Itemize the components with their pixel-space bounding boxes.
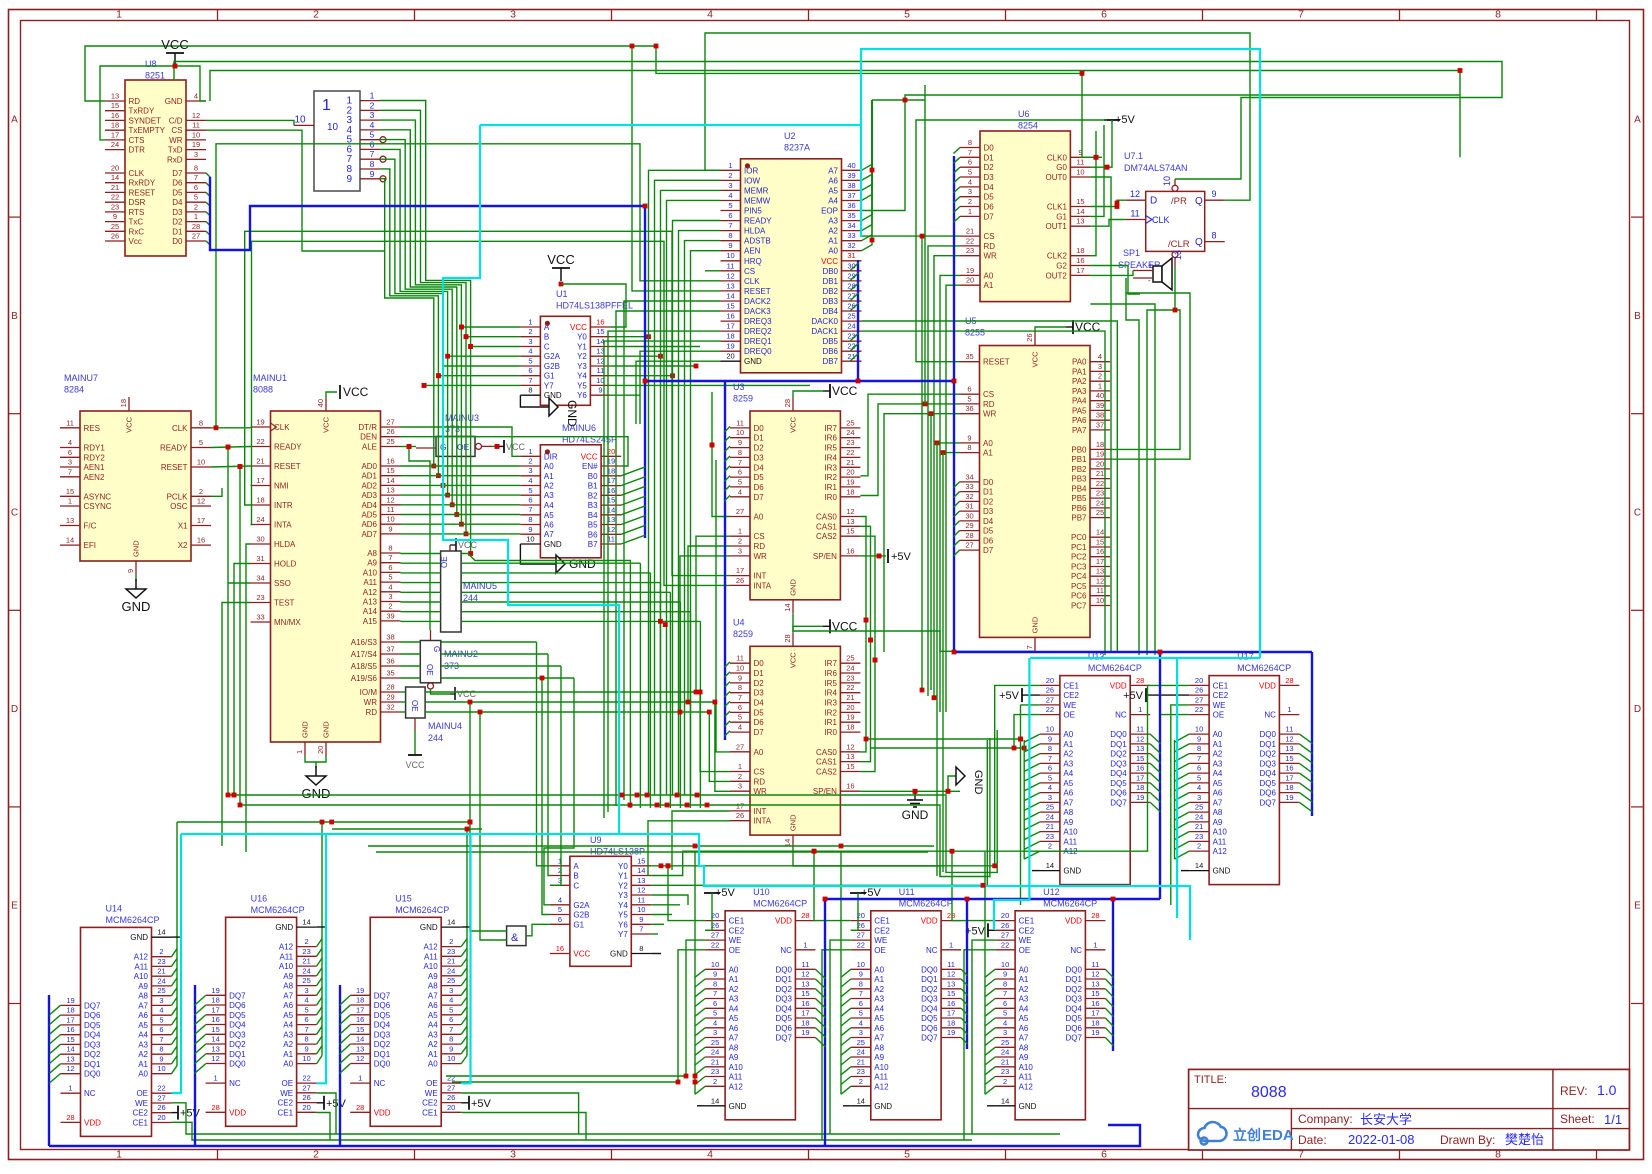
wire: U7.1 Q to top rail: [705, 33, 1250, 200]
svg-text:VDD: VDD: [1259, 681, 1276, 690]
svg-text:21: 21: [711, 1057, 719, 1066]
svg-text:23: 23: [846, 438, 854, 447]
svg-text:22: 22: [447, 1074, 455, 1083]
svg-text:IR0: IR0: [824, 493, 837, 502]
svg-text:PA1: PA1: [1072, 367, 1087, 376]
svg-text:6: 6: [68, 448, 72, 457]
bus: memory DQ verticals: [1159, 652, 1161, 899]
svg-text:2: 2: [449, 937, 453, 946]
svg-text:12: 12: [846, 742, 854, 751]
svg-text:27: 27: [386, 418, 394, 427]
svg-text:6: 6: [194, 183, 198, 192]
svg-text:U7.1: U7.1: [1124, 151, 1143, 161]
svg-text:1: 1: [803, 940, 807, 949]
svg-text:D1: D1: [754, 669, 765, 678]
svg-text:4: 4: [194, 92, 198, 101]
svg-text:4: 4: [1048, 783, 1052, 792]
svg-text:GND: GND: [972, 770, 984, 795]
ground: [914, 792, 916, 800]
svg-text:8: 8: [859, 979, 863, 988]
svg-text:A1: A1: [874, 975, 884, 984]
svg-text:A: A: [573, 862, 579, 871]
svg-text:WR: WR: [754, 552, 768, 561]
svg-text:A3: A3: [874, 995, 884, 1004]
IC MAINU1 8088 CPU: [251, 373, 401, 742]
svg-text:2022-01-08: 2022-01-08: [1348, 1132, 1415, 1147]
svg-text:A10: A10: [423, 962, 438, 971]
svg-text:8: 8: [639, 944, 643, 953]
svg-text:CAS1: CAS1: [816, 522, 837, 531]
svg-text:DQ1: DQ1: [374, 1050, 391, 1059]
svg-text:G2: G2: [1056, 262, 1067, 271]
svg-text:B6: B6: [588, 530, 598, 539]
wire: U3 CAS0..2 to U4 CAS: [860, 517, 866, 752]
svg-text:SP1: SP1: [1123, 248, 1140, 258]
svg-text:PB4: PB4: [1071, 484, 1087, 493]
svg-text:A5: A5: [1063, 779, 1073, 788]
svg-text:8: 8: [194, 164, 198, 173]
svg-text:PB1: PB1: [1071, 455, 1087, 464]
svg-text:Sheet:: Sheet:: [1560, 1112, 1595, 1126]
svg-text:DQ7: DQ7: [775, 1034, 792, 1043]
wire: U7.1 pin10 via rail: [1090, 304, 1155, 655]
svg-text:11: 11: [637, 895, 645, 904]
svg-text:10: 10: [1096, 596, 1104, 605]
svg-text:Y4: Y4: [618, 901, 628, 910]
svg-text:CS: CS: [744, 267, 755, 276]
svg-text:INTA: INTA: [754, 581, 772, 590]
svg-text:14: 14: [66, 1045, 74, 1054]
svg-text:DQ6: DQ6: [374, 1001, 391, 1010]
svg-text:12: 12: [1096, 577, 1104, 586]
svg-text:27: 27: [1195, 695, 1203, 704]
ground at MAINU6: [520, 544, 556, 564]
buffer MAINU4 74xx244: [406, 687, 462, 743]
svg-text:16: 16: [66, 1025, 74, 1034]
svg-text:DQ7: DQ7: [1259, 798, 1276, 807]
svg-text:26: 26: [111, 232, 119, 241]
svg-text:22: 22: [711, 940, 719, 949]
svg-text:15: 15: [211, 1025, 219, 1034]
svg-text:10: 10: [736, 428, 744, 437]
svg-text:5: 5: [904, 1149, 910, 1161]
svg-text:ASYNC: ASYNC: [84, 492, 112, 501]
svg-text:7: 7: [159, 1035, 163, 1044]
svg-text:MCM6264CP: MCM6264CP: [251, 905, 305, 915]
svg-text:A2: A2: [874, 985, 884, 994]
svg-text:1: 1: [370, 91, 375, 101]
svg-text:B7: B7: [588, 540, 598, 549]
svg-text:/CLR: /CLR: [1168, 239, 1190, 250]
svg-text:24: 24: [846, 664, 854, 673]
svg-text:9: 9: [346, 174, 352, 185]
svg-text:GND: GND: [874, 1102, 892, 1111]
svg-text:2: 2: [1048, 842, 1052, 851]
svg-text:A6: A6: [1019, 1024, 1029, 1033]
wire: U6 CLK2/G2/OUT2: [1090, 131, 1096, 256]
svg-text:B: B: [1634, 311, 1641, 322]
svg-text:DQ1: DQ1: [1110, 740, 1127, 749]
svg-text:A10: A10: [874, 1063, 889, 1072]
svg-text:DT/R: DT/R: [358, 423, 377, 432]
svg-text:32: 32: [386, 703, 394, 712]
svg-text:DQ1: DQ1: [775, 975, 792, 984]
svg-text:14: 14: [111, 173, 119, 182]
svg-text:12: 12: [947, 970, 955, 979]
wire: DT/R to MAINU6 DIR: [401, 427, 521, 456]
svg-text:READY: READY: [160, 444, 188, 453]
svg-text:D4: D4: [984, 183, 995, 192]
svg-text:8: 8: [1048, 744, 1052, 753]
svg-text:D0: D0: [754, 424, 765, 433]
svg-text:4: 4: [305, 996, 309, 1005]
svg-text:D5: D5: [983, 527, 994, 536]
svg-text:AEN: AEN: [744, 247, 761, 256]
svg-text:RTS: RTS: [129, 208, 145, 217]
svg-text:U4: U4: [733, 617, 745, 627]
svg-text:RD: RD: [754, 542, 766, 551]
svg-text:ALE: ALE: [362, 443, 377, 452]
IC U12 MCM6264CP SRAM: [995, 887, 1105, 1120]
svg-text:24: 24: [111, 140, 119, 149]
svg-text:NC: NC: [1264, 711, 1276, 720]
svg-text:DQ4: DQ4: [1110, 769, 1127, 778]
svg-text:A8: A8: [428, 982, 438, 991]
svg-text:3: 3: [859, 1028, 863, 1037]
svg-text:VCC: VCC: [1031, 351, 1040, 367]
wire: U7.1 pin13 down: [1147, 266, 1175, 655]
svg-text:14: 14: [157, 928, 165, 937]
svg-text:6: 6: [859, 999, 863, 1008]
svg-text:G2B: G2B: [544, 362, 560, 371]
svg-text:DACK0: DACK0: [811, 317, 838, 326]
svg-text:DQ5: DQ5: [84, 1021, 101, 1030]
svg-text:A7: A7: [874, 1034, 884, 1043]
svg-text:20: 20: [966, 276, 974, 285]
svg-text:2: 2: [713, 1077, 717, 1086]
svg-text:A7: A7: [1063, 798, 1073, 807]
IC U3 8259 interrupt controller: [730, 382, 860, 600]
IC U16 MCM6264CP SRAM: [206, 893, 317, 1126]
svg-text:20: 20: [447, 1103, 455, 1112]
svg-text:10: 10: [1195, 725, 1203, 734]
svg-text:10: 10: [726, 251, 734, 260]
svg-text:3: 3: [159, 996, 163, 1005]
svg-text:A12: A12: [874, 1082, 889, 1091]
svg-text:36: 36: [386, 657, 394, 666]
svg-text:PC6: PC6: [1071, 592, 1087, 601]
svg-text:DQ0: DQ0: [1065, 965, 1082, 974]
svg-text:A0: A0: [1063, 730, 1073, 739]
svg-text:18: 18: [256, 496, 264, 505]
svg-text:11: 11: [736, 654, 744, 663]
svg-text:16: 16: [947, 999, 955, 1008]
svg-text:10: 10: [294, 114, 306, 125]
svg-text:6: 6: [1101, 9, 1107, 21]
svg-text:31: 31: [256, 554, 264, 563]
svg-text:MCM6264CP: MCM6264CP: [1088, 663, 1142, 673]
svg-text:A12: A12: [729, 1082, 744, 1091]
svg-text:3: 3: [728, 181, 732, 190]
svg-text:11: 11: [1096, 586, 1104, 595]
svg-text:244: 244: [428, 733, 443, 743]
svg-text:GND: GND: [744, 357, 762, 366]
svg-text:X1: X1: [178, 522, 188, 531]
svg-text:OE: OE: [425, 664, 434, 676]
svg-text:17: 17: [736, 801, 744, 810]
svg-text:IR1: IR1: [824, 483, 837, 492]
svg-text:20: 20: [157, 1113, 165, 1122]
svg-text:DACK1: DACK1: [811, 327, 838, 336]
svg-text:樊楚怡: 樊楚怡: [1505, 1132, 1544, 1147]
wire: READY/RESET distribution verticals: [227, 447, 229, 795]
svg-text:A12: A12: [1019, 1082, 1034, 1091]
svg-text:A15: A15: [363, 617, 378, 626]
svg-text:15: 15: [801, 989, 809, 998]
svg-text:10: 10: [192, 130, 200, 139]
svg-text:HRQ: HRQ: [744, 257, 762, 266]
svg-text:IR3: IR3: [824, 463, 837, 472]
svg-text:A0: A0: [754, 513, 764, 522]
svg-text:26: 26: [1001, 921, 1009, 930]
svg-text:23: 23: [302, 947, 310, 956]
svg-text:A: A: [1634, 114, 1641, 125]
svg-text:DB0: DB0: [822, 267, 838, 276]
svg-text:40: 40: [316, 399, 325, 407]
svg-text:A2: A2: [1063, 750, 1073, 759]
svg-text:26: 26: [302, 1093, 310, 1102]
svg-text:8: 8: [199, 418, 203, 427]
wire: long rail y61: [174, 62, 1502, 180]
svg-text:15: 15: [66, 1035, 74, 1044]
svg-text:5: 5: [859, 1009, 863, 1018]
svg-text:WE: WE: [1213, 701, 1226, 710]
svg-text:B2: B2: [588, 491, 598, 500]
wire: DEN to MAINU6 EN#: [401, 437, 629, 466]
svg-text:A6: A6: [828, 176, 838, 185]
svg-text:8: 8: [1003, 979, 1007, 988]
svg-text:D3: D3: [984, 173, 995, 182]
svg-text:15: 15: [1091, 989, 1099, 998]
svg-text:DQ3: DQ3: [775, 995, 792, 1004]
svg-text:18: 18: [111, 121, 119, 130]
svg-text:A9: A9: [367, 559, 377, 568]
svg-text:5: 5: [738, 477, 742, 486]
svg-text:22: 22: [302, 1074, 310, 1083]
svg-text:VCC: VCC: [832, 384, 858, 398]
svg-text:7: 7: [738, 693, 742, 702]
svg-text:22: 22: [157, 1084, 165, 1093]
wire: IO/M WR RD control lines: [401, 691, 406, 693]
power flag VCC at MAINU3: [495, 444, 500, 449]
svg-text:D4: D4: [983, 517, 994, 526]
svg-text:20: 20: [1195, 676, 1203, 685]
svg-text:A9: A9: [729, 1053, 739, 1062]
svg-text:EOP: EOP: [821, 207, 838, 216]
svg-text:CE1: CE1: [278, 1108, 294, 1117]
svg-text:7: 7: [388, 553, 392, 562]
svg-text:18: 18: [801, 1018, 809, 1027]
svg-text:A11: A11: [1213, 837, 1227, 846]
svg-text:OE: OE: [136, 1089, 148, 1098]
svg-text:+5V: +5V: [180, 1108, 201, 1120]
svg-text:22: 22: [846, 448, 854, 457]
svg-text:1: 1: [116, 9, 122, 21]
svg-text:A0: A0: [983, 439, 993, 448]
svg-text:24: 24: [1046, 812, 1054, 821]
svg-text:GND: GND: [301, 721, 310, 738]
svg-text:6: 6: [449, 1015, 453, 1024]
svg-text:CS: CS: [754, 532, 765, 541]
svg-text:4: 4: [388, 582, 392, 591]
svg-text:A18/S5: A18/S5: [351, 662, 378, 671]
wire: U8 RD loop to top rail: [85, 46, 1090, 157]
svg-text:A9: A9: [1063, 818, 1073, 827]
svg-text:A10: A10: [1213, 828, 1228, 837]
svg-text:A3: A3: [1213, 759, 1223, 768]
svg-text:17: 17: [726, 322, 734, 331]
svg-text:17: 17: [1076, 266, 1084, 275]
svg-text:CLK: CLK: [744, 277, 760, 286]
svg-text:4: 4: [159, 1006, 163, 1015]
svg-text:DEN: DEN: [360, 433, 377, 442]
svg-text:10: 10: [447, 1054, 455, 1063]
svg-text:A7: A7: [729, 1034, 739, 1043]
bus: address fan: [317, 939, 322, 947]
wire: U8 VCC net: [100, 66, 206, 140]
svg-text:OUT1: OUT1: [1046, 222, 1068, 231]
svg-text:Y3: Y3: [577, 362, 587, 371]
svg-text:EN#: EN#: [582, 462, 598, 471]
wire: U14/U16/U15 WE/CE1 bottom links: [172, 1103, 467, 1134]
svg-text:3: 3: [738, 546, 742, 555]
svg-text:AD6: AD6: [361, 520, 377, 529]
svg-text:2: 2: [305, 937, 309, 946]
svg-text:19: 19: [966, 266, 974, 275]
wire: 8237 EOP: [862, 95, 1461, 211]
svg-text:10: 10: [857, 960, 865, 969]
svg-text:DREQ2: DREQ2: [744, 327, 772, 336]
svg-text:IO/M: IO/M: [360, 688, 378, 697]
svg-text:27: 27: [1001, 931, 1009, 940]
bus: address fan: [1175, 734, 1190, 742]
svg-text:WE: WE: [280, 1089, 293, 1098]
svg-text:RxD: RxD: [167, 155, 183, 164]
svg-text:4: 4: [707, 9, 713, 21]
svg-text:A3: A3: [1063, 759, 1073, 768]
power flag VCC at U4: [793, 626, 823, 632]
svg-text:CE2: CE2: [1063, 691, 1079, 700]
wire: U6 CLK1/G1/OUT1: [1090, 200, 1125, 206]
svg-text:CE1: CE1: [132, 1119, 148, 1128]
svg-text:CE1: CE1: [874, 917, 890, 926]
svg-text:A4: A4: [828, 197, 838, 206]
wire: U9 Y outputs: [651, 685, 1040, 865]
svg-text:8: 8: [967, 443, 971, 452]
wire: 8237 DACK0/DACK1: [862, 321, 1118, 652]
svg-text:4: 4: [528, 476, 532, 485]
svg-text:U3: U3: [733, 382, 745, 392]
svg-text:DQ1: DQ1: [1065, 975, 1082, 984]
svg-text:NC: NC: [374, 1079, 386, 1088]
svg-text:CE2: CE2: [874, 926, 890, 935]
svg-text:19: 19: [66, 996, 74, 1005]
svg-text:A3: A3: [729, 995, 739, 1004]
svg-text:MN/MX: MN/MX: [274, 618, 301, 627]
svg-text:16: 16: [386, 457, 394, 466]
svg-text:1: 1: [1093, 940, 1097, 949]
svg-text:DQ6: DQ6: [775, 1024, 792, 1033]
svg-text:12: 12: [66, 1064, 74, 1073]
svg-text:A1: A1: [984, 281, 994, 290]
wire: U9 GND stub: [651, 953, 661, 955]
svg-text:3: 3: [1003, 1028, 1007, 1037]
svg-text:DQ1: DQ1: [921, 975, 938, 984]
svg-text:DQ4: DQ4: [1065, 1004, 1082, 1013]
svg-text:28: 28: [801, 911, 809, 920]
svg-text:RESET: RESET: [129, 188, 156, 197]
svg-text:9: 9: [370, 169, 375, 179]
svg-text:A2: A2: [138, 1050, 148, 1059]
svg-text:DQ2: DQ2: [1259, 750, 1276, 759]
svg-text:25: 25: [447, 976, 455, 985]
svg-text:Y2: Y2: [618, 881, 628, 890]
svg-text:A5: A5: [428, 1011, 438, 1020]
svg-text:A5: A5: [138, 1021, 148, 1030]
wire: long rail y70: [210, 71, 1460, 158]
svg-text:GND: GND: [1063, 867, 1081, 876]
svg-text:VCC: VCC: [570, 323, 587, 332]
bus: data bus branch to 8237/U5: [645, 380, 954, 382]
power flag VCC at U5: [1035, 327, 1066, 332]
svg-text:CE2: CE2: [1019, 926, 1035, 935]
svg-text:PC3: PC3: [1071, 563, 1087, 572]
svg-text:29: 29: [386, 693, 394, 702]
svg-text:READY: READY: [744, 217, 772, 226]
svg-text:A8: A8: [283, 982, 293, 991]
svg-text:23: 23: [711, 1067, 719, 1076]
svg-text:CSYNC: CSYNC: [84, 502, 112, 511]
svg-text:16: 16: [197, 536, 205, 545]
svg-text:18: 18: [947, 1018, 955, 1027]
svg-text:G1: G1: [1056, 212, 1067, 221]
wire: AND gate inputs from WR/RD: [470, 702, 507, 931]
svg-text:VCC: VCC: [573, 950, 590, 959]
svg-text:PB6: PB6: [1071, 504, 1087, 513]
svg-text:16: 16: [211, 1015, 219, 1024]
svg-text:D5: D5: [754, 473, 765, 482]
svg-text:8: 8: [1197, 744, 1201, 753]
svg-text:PA0: PA0: [1072, 358, 1087, 367]
svg-text:MCM6264CP: MCM6264CP: [753, 898, 807, 908]
svg-text:23: 23: [447, 947, 455, 956]
svg-text:8259: 8259: [733, 394, 753, 404]
svg-text:3: 3: [713, 1028, 717, 1037]
svg-text:4: 4: [370, 120, 375, 130]
svg-text:27: 27: [711, 931, 719, 940]
svg-text:6: 6: [305, 1015, 309, 1024]
svg-text:A1: A1: [544, 472, 554, 481]
svg-text:DQ7: DQ7: [374, 991, 391, 1000]
svg-text:CS: CS: [171, 126, 182, 135]
svg-text:22: 22: [111, 193, 119, 202]
svg-text:11: 11: [947, 960, 955, 969]
svg-text:U2: U2: [784, 131, 796, 141]
svg-text:7: 7: [968, 148, 972, 157]
svg-text:DQ7: DQ7: [229, 991, 246, 1000]
svg-text:4: 4: [728, 191, 732, 200]
svg-text:SYNDET: SYNDET: [129, 116, 162, 125]
